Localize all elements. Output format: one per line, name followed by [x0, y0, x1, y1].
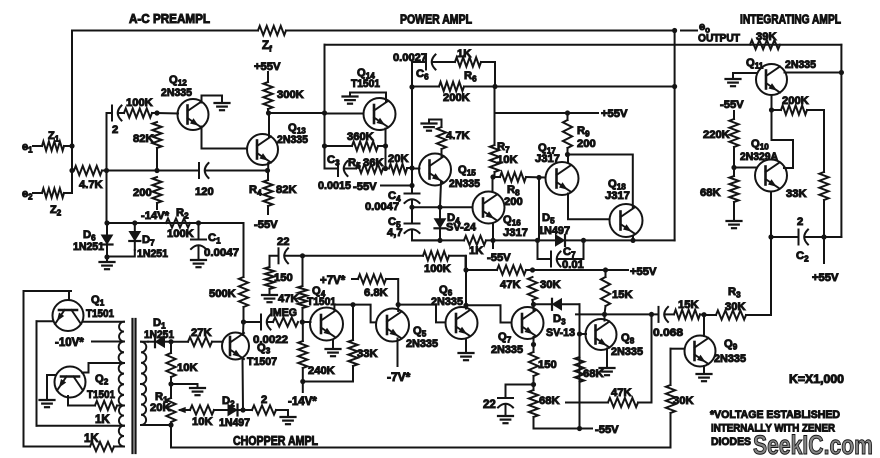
wire 22cap top lead: [505, 385, 507, 398]
wire 33K rail b: [352, 366, 354, 382]
wire 30K q9 bottom: [670, 413, 672, 448]
label -55V integ: [720, 99, 744, 111]
label 360K: [347, 131, 374, 143]
wire Q11 base: [733, 72, 757, 74]
resistor 39K: [750, 40, 780, 49]
wire R1 to bottom: [170, 425, 172, 448]
node Q8 base node: [577, 331, 582, 336]
node R9 top: [565, 110, 570, 115]
label 200K integ: [782, 95, 809, 107]
wire 240K bottom: [302, 368, 304, 382]
ground Q6: [459, 350, 474, 360]
node Q4 base node: [300, 319, 305, 324]
wire y240 a: [412, 239, 464, 241]
svg-text:36K: 36K: [363, 157, 384, 169]
wire y314 left: [576, 313, 605, 315]
svg-text:K=X1,000: K=X1,000: [789, 374, 844, 386]
wire 22cap bottom lead: [505, 405, 507, 415]
label R1: [155, 391, 168, 405]
label SV-24: [446, 222, 477, 234]
label 10K vert: [177, 362, 198, 374]
label C7: [563, 246, 576, 260]
node e1 junction: [69, 143, 74, 148]
label R3 30K: [725, 301, 746, 313]
node 47K left node: [463, 267, 468, 272]
resistor 47K y270: [497, 265, 526, 274]
label D6: [83, 229, 96, 243]
transformer primary top: [141, 342, 146, 384]
wire y322 b: [268, 321, 273, 323]
wire Q8 base rail: [579, 357, 581, 429]
label Q16 J317: [503, 227, 528, 239]
label Q7: [498, 331, 512, 345]
svg-text:20K: 20K: [150, 402, 171, 414]
wire Q14 emitter: [385, 129, 387, 147]
node Q9 collector node: [701, 312, 706, 317]
svg-text:47K: 47K: [278, 293, 299, 305]
svg-text:C1: C1: [208, 232, 221, 246]
label 240K: [308, 365, 335, 377]
resistor 100K base: [124, 108, 152, 117]
svg-text:30K: 30K: [725, 301, 746, 313]
transformer secondary top: [119, 322, 124, 342]
label A-C PREAMPL: [129, 12, 210, 26]
wire Q1 emitter rail: [36, 321, 38, 425]
svg-text:POWER AMPL: POWER AMPL: [400, 13, 472, 27]
node 4.7K junction: [69, 168, 74, 173]
transistor Q6: [446, 307, 478, 339]
node rail-146: [322, 143, 327, 148]
wire Q9 base stub: [671, 348, 685, 350]
svg-text:Q9: Q9: [724, 338, 738, 352]
svg-text:2N335: 2N335: [277, 134, 308, 146]
svg-text:10K: 10K: [497, 154, 518, 166]
svg-text:1N251: 1N251: [144, 329, 174, 341]
resistor 47K chopper: [298, 286, 307, 308]
label Z2: [50, 204, 62, 217]
diode D5: [538, 235, 584, 246]
label Q6: [439, 284, 453, 298]
svg-text:2N335: 2N335: [449, 178, 480, 190]
wire 6.8K lead: [352, 278, 358, 280]
wire 10K wiper right: [214, 409, 225, 411]
wire Q1 emitter: [37, 320, 53, 322]
svg-text:22: 22: [277, 236, 289, 248]
diode D7: [129, 223, 140, 250]
label C5 4,7: [387, 227, 403, 239]
label Q11 2N335: [785, 59, 816, 71]
label -7V*: [387, 370, 411, 384]
svg-text:R5: R5: [348, 157, 361, 171]
wire eo stub: [681, 30, 697, 32]
wire 200K integ left: [772, 109, 782, 111]
label C3: [327, 154, 340, 168]
label R1 20K: [150, 402, 171, 414]
wire R1 top: [170, 384, 172, 398]
resistor 100K y255: [423, 251, 449, 260]
wire 10K vert top: [170, 342, 172, 353]
resistor 1K q2: [95, 401, 117, 410]
transistor Q15: [419, 154, 451, 186]
resistor 150 q7: [529, 352, 538, 376]
capacitor C7: [551, 252, 561, 267]
node D1 right: [168, 339, 173, 344]
node Q3 emitter node: [240, 407, 245, 412]
transistor Q5: [376, 309, 409, 342]
transformer secondary 5: [119, 426, 124, 447]
transistor Q18: [610, 204, 643, 237]
node D5 left: [535, 238, 540, 243]
label -10V*: [55, 337, 84, 349]
svg-text:Q5: Q5: [413, 325, 427, 339]
label Q6 2N335: [431, 296, 463, 308]
node top-right corner: [672, 28, 677, 33]
capacitor 0.068: [659, 307, 669, 322]
svg-text:+55V: +55V: [601, 108, 628, 120]
svg-text:-55V: -55V: [595, 424, 619, 436]
label POWER AMPL: [400, 13, 472, 27]
svg-text:R6: R6: [464, 70, 477, 84]
wire 68K q7 bottom: [534, 417, 593, 429]
wire Q15 emitter: [440, 182, 441, 207]
svg-text:Q1: Q1: [91, 294, 105, 308]
wire y113 to powerbox: [268, 112, 325, 114]
label R9 200: [577, 138, 596, 150]
wire 6.8K corner: [386, 279, 398, 305]
label R8 200: [504, 196, 523, 208]
wire Q16 emitter: [492, 224, 494, 241]
ground Q4: [326, 346, 341, 356]
wire Q14 emitter rail: [385, 146, 387, 169]
wire D3 rail: [579, 304, 581, 357]
node D3 left node: [531, 302, 536, 307]
node Q13 emitter junction: [265, 168, 270, 173]
wire top feedback left: [72, 30, 258, 32]
svg-text:+55V: +55V: [812, 272, 839, 284]
svg-text:C7: C7: [563, 246, 576, 260]
resistor 2 chopper: [252, 405, 276, 414]
wire 47K fb left: [566, 402, 608, 404]
transistor Q7: [512, 307, 544, 339]
wire y314 mid: [605, 313, 658, 315]
label D1: [153, 317, 166, 331]
svg-text:300K: 300K: [277, 89, 304, 101]
wire Q2 base: [47, 375, 55, 398]
wire 500K rail top: [243, 223, 245, 277]
svg-text:150: 150: [538, 359, 557, 371]
wire rail494: [494, 87, 496, 146]
svg-text:100K: 100K: [424, 263, 451, 275]
label 150 q7: [538, 359, 557, 371]
wire Q17base to y240 rail: [538, 178, 540, 241]
label +55V mid: [630, 266, 657, 278]
svg-text:Q12: Q12: [169, 74, 187, 88]
transistor Q13: [247, 134, 278, 165]
label 4.7K input: [79, 179, 103, 191]
label CHOPPER AMPL: [233, 434, 318, 448]
svg-text:82K: 82K: [133, 133, 154, 145]
wire Q11 collector: [785, 72, 842, 74]
wire +55V stub integ: [823, 237, 825, 263]
label Z1: [48, 130, 60, 143]
svg-text:82K: 82K: [276, 184, 297, 196]
node 47K top: [300, 253, 305, 258]
ground 4.7K top: [422, 120, 437, 131]
resistor 1K y240: [464, 236, 486, 245]
node Q11 emitter node: [769, 107, 774, 112]
wire cap2 left lead: [107, 112, 113, 114]
svg-text:T1501: T1501: [86, 308, 114, 320]
wire D2 to res2: [241, 409, 252, 411]
wire y304 right: [398, 305, 445, 323]
wire 27K lead: [171, 341, 188, 343]
svg-text:2N335: 2N335: [491, 344, 523, 356]
svg-text:2: 2: [797, 216, 803, 228]
wire power box top: [325, 44, 842, 46]
wire Q5 collector: [397, 305, 399, 311]
wire chopper box left: [24, 291, 72, 447]
label 33K integ: [786, 188, 807, 200]
wire y86 left: [412, 86, 439, 88]
wire Q9 emitter: [703, 366, 705, 372]
label res 2: [261, 394, 267, 406]
transistor Q4: [310, 308, 343, 341]
node D7 top: [132, 220, 137, 225]
label 30K vert: [540, 279, 561, 291]
svg-text:-55V: -55V: [487, 252, 511, 264]
svg-text:-10V*: -10V*: [55, 337, 84, 349]
svg-text:4,7: 4,7: [387, 227, 403, 239]
wire Q6 emitter: [465, 339, 467, 351]
ground 22cap: [498, 414, 513, 423]
wire 68K q7 top: [533, 385, 535, 391]
wire 300K top stub: [267, 72, 269, 82]
capacitor C1: [191, 240, 206, 250]
label Q9: [724, 338, 738, 352]
label Q10: [751, 138, 769, 152]
wire 200 bottom stub: [156, 203, 158, 209]
node 33K top: [350, 302, 355, 307]
svg-text:10K: 10K: [192, 416, 213, 428]
svg-text:T1501: T1501: [351, 78, 380, 90]
wire Q12 collector: [202, 96, 223, 103]
resistor R7 10K: [490, 145, 499, 172]
svg-text:SV-24: SV-24: [446, 222, 477, 234]
wire Q2 emitter: [68, 396, 95, 406]
node Q10 base node: [731, 165, 736, 170]
svg-text:-55V: -55V: [254, 219, 278, 231]
label Q14 T1501: [351, 78, 380, 90]
resistor 240K: [298, 341, 307, 368]
label R6: [464, 70, 477, 84]
svg-text:47K: 47K: [611, 387, 632, 399]
wire R4 top: [267, 171, 269, 181]
wire 220K bottom: [733, 147, 735, 168]
wire e2 lead: [33, 192, 42, 194]
label Q16: [503, 214, 521, 228]
label Q12 2N335: [161, 87, 192, 99]
node Q7 emitter node: [531, 342, 536, 347]
svg-text:D5: D5: [542, 212, 555, 226]
resistor 1MEG: [273, 317, 298, 326]
ground Q8: [600, 366, 615, 375]
label D4: [447, 212, 460, 226]
resistor 200K integ: [781, 105, 807, 114]
capacitor C6: [426, 55, 436, 70]
ground Q14 collector: [343, 93, 358, 104]
label R8: [507, 184, 520, 198]
svg-text:1N497: 1N497: [538, 225, 570, 237]
node Q12 base node: [154, 110, 159, 115]
label 6.8K: [364, 287, 388, 299]
svg-text:2N329A: 2N329A: [740, 151, 778, 163]
transistor Q16: [473, 192, 505, 224]
resistor R6 1K: [455, 57, 481, 66]
transistor Q12: [178, 99, 209, 130]
wire Q6 collector: [465, 305, 467, 308]
wire C7 right: [558, 240, 584, 259]
wiper arrow: [177, 407, 190, 413]
svg-text:10K: 10K: [177, 362, 198, 374]
wire 30K bottom: [533, 300, 534, 304]
label 15K vert: [612, 289, 633, 301]
wire 150 q7 top: [533, 345, 535, 353]
label 22 bottom: [483, 399, 496, 411]
node R1 top: [168, 381, 173, 386]
wire 47K fb rail: [651, 314, 653, 402]
node cap2 rail bottom: [104, 168, 109, 173]
resistor Zf: [258, 26, 286, 35]
ground 68K integ: [727, 219, 742, 228]
ground Q2: [40, 398, 55, 407]
svg-text:220K: 220K: [703, 129, 730, 141]
svg-text:Q16: Q16: [503, 214, 521, 228]
wire rail412 c: [411, 200, 413, 224]
wire Q4 collector: [333, 305, 335, 311]
svg-text:D3: D3: [553, 313, 566, 327]
label D1 1N251: [144, 329, 174, 341]
wire Q17 collector: [567, 155, 569, 163]
resistor 47K fb: [608, 398, 638, 407]
svg-text:Q11: Q11: [746, 57, 764, 71]
label T1501 q2: [87, 389, 115, 401]
resistor 300K: [263, 82, 272, 109]
wire Q10 collector path: [772, 110, 794, 168]
svg-text:T1507: T1507: [247, 356, 277, 368]
wire top feedback right: [286, 30, 675, 32]
label watermark: [753, 430, 873, 458]
label D5: [542, 212, 555, 226]
label Q10 2N329A: [740, 151, 778, 163]
label 30K q9: [673, 395, 694, 407]
wire Q17 emitter: [568, 194, 610, 220]
wire y381: [303, 381, 353, 383]
svg-text:1K: 1K: [469, 245, 483, 257]
svg-text:1K: 1K: [84, 433, 99, 445]
ground y384: [190, 384, 205, 395]
svg-text:Z2: Z2: [50, 204, 62, 217]
wire integ right rail: [840, 45, 842, 237]
label D3: [553, 313, 566, 327]
node 47K right node: [649, 312, 654, 317]
label D2 1N497: [219, 417, 250, 429]
svg-text:C2: C2: [796, 250, 809, 264]
node 360K right: [383, 143, 388, 148]
wire y304 left: [334, 305, 376, 323]
wire y270 a: [466, 269, 497, 271]
label 1K q2: [95, 414, 110, 426]
svg-text:6.8K: 6.8K: [364, 287, 388, 299]
transistor Q14: [364, 98, 396, 130]
wire Q11 emitter: [771, 95, 773, 110]
wire R4 bottom stub: [267, 206, 269, 214]
wire y170 right: [206, 170, 268, 172]
svg-text:Q2: Q2: [95, 373, 109, 387]
resistor 4.7K input: [74, 166, 102, 175]
label 200: [133, 187, 152, 199]
label D7 1N251: [137, 248, 168, 260]
capacitor 120: [199, 163, 209, 178]
wire C6 to 1K: [433, 61, 455, 63]
label R4: [249, 184, 262, 198]
resistor 10K vert: [166, 353, 175, 377]
label 68K q7: [539, 395, 560, 407]
label Q11: [746, 57, 764, 71]
label D2: [222, 395, 235, 409]
svg-text:15K: 15K: [678, 299, 699, 311]
wire y255 mid: [286, 255, 424, 257]
wire 220K top stub: [733, 111, 735, 119]
wire 20K to rail: [407, 167, 412, 169]
svg-text:SeekIC.com: SeekIC.com: [753, 430, 873, 458]
wire C2 right lead: [806, 236, 842, 238]
label Q5 2N335: [406, 338, 438, 350]
svg-text:-55V: -55V: [353, 181, 377, 193]
label 200K fb: [443, 92, 470, 104]
wire Q7 collector: [533, 304, 535, 310]
label 300K: [277, 89, 304, 101]
node C2 right: [821, 234, 826, 239]
wire 240K top: [302, 322, 304, 341]
svg-text:Z1: Z1: [48, 130, 60, 143]
node 300K bottom: [266, 110, 271, 115]
wire C3 left: [325, 168, 338, 170]
resistor 15K vert: [601, 277, 610, 306]
svg-text:1K: 1K: [95, 414, 110, 426]
wire R8 right: [526, 176, 546, 179]
label 20K: [388, 153, 409, 165]
label C2: [796, 250, 809, 264]
svg-text:Zf: Zf: [262, 40, 272, 54]
transistor Q8: [586, 319, 617, 350]
ground Q12 collector: [215, 96, 230, 111]
label R4 82K: [276, 184, 297, 196]
wire Q7 emitter: [533, 337, 535, 345]
svg-text:2N335: 2N335: [161, 87, 192, 99]
label Q4: [312, 285, 326, 299]
svg-text:240K: 240K: [308, 365, 335, 377]
wire Z2 to rail: [64, 192, 72, 194]
wire Q8 base rail stub: [580, 333, 587, 335]
node D6 bottom: [104, 254, 109, 259]
node rail-113: [322, 110, 327, 115]
resistor 68K integ: [729, 176, 738, 202]
node D4 wire rail: [409, 205, 414, 210]
wire y314 right: [700, 313, 704, 316]
resistor 30K q9: [666, 385, 675, 413]
node 22cap node: [531, 382, 536, 387]
transformer primary bottom: [141, 384, 146, 425]
